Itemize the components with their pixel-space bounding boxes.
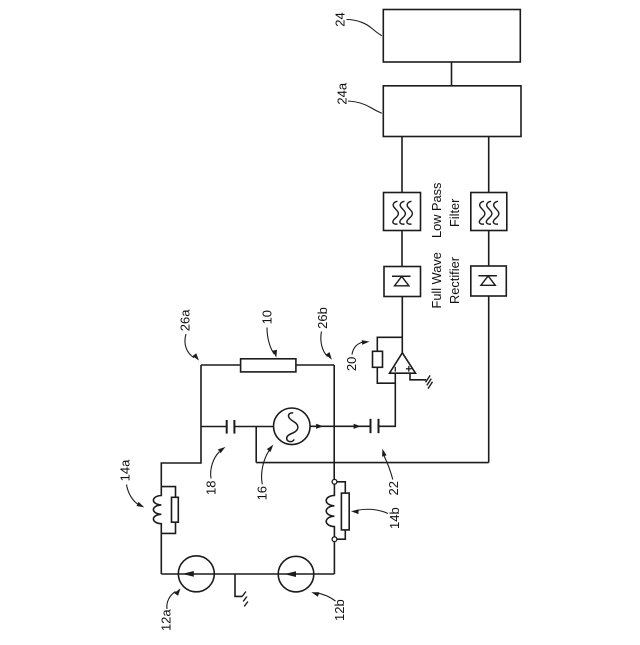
terminal node (top) of 14b: [332, 479, 337, 484]
inductor 14b resistor branch top: [337, 482, 345, 493]
diode symbol 2: [478, 275, 497, 277]
svg-text:18: 18: [203, 481, 218, 495]
leader for 20: [352, 342, 364, 355]
wire rectifier1 to op-amp output: [401, 297, 403, 353]
full wave rectifier box 1: [384, 267, 421, 297]
low pass filter box 2: [471, 193, 507, 231]
op-amp minus marker: [394, 367, 396, 372]
filter squiggles 1: [393, 201, 399, 224]
non-inverting input to ground: [410, 373, 426, 380]
svg-text:12a: 12a: [158, 609, 173, 631]
capacitor 18 plates: [226, 420, 228, 434]
box 24 (output block): [383, 10, 520, 63]
long bottom feed wire to rectifier chain 2: [256, 462, 489, 464]
leader for 12a: [167, 592, 176, 610]
inductor 14a combo top bar: [161, 487, 175, 498]
wire rectifier2 down to bottom feed wire: [488, 296, 490, 463]
leader for 24: [347, 20, 382, 36]
tee down from oscillator input node: [255, 427, 257, 463]
wire box24a to low pass filter 1: [401, 137, 403, 193]
svg-text:12b: 12b: [332, 599, 347, 621]
full wave rectifier box 2: [471, 266, 507, 296]
ground stub (bottom): [235, 574, 242, 596]
leader for 24a: [348, 101, 382, 113]
bottom rail: [161, 573, 334, 575]
leader for 26a: [185, 334, 194, 358]
svg-text:14a: 14a: [117, 459, 132, 481]
wire left rail to capacitor 18: [201, 426, 227, 428]
svg-text:Full Wave: Full Wave: [429, 252, 444, 308]
svg-text:22: 22: [386, 481, 401, 495]
wire LPF1 to rectifier 1: [401, 231, 403, 267]
inductor 14a coil: [153, 487, 161, 534]
arrow of 12b: [284, 571, 296, 577]
wire 14b to bottom rail: [333, 542, 335, 574]
op-amp plus marker: [406, 368, 412, 370]
svg-text:Rectifier: Rectifier: [447, 256, 462, 304]
oscillator sine symbol: [287, 413, 298, 442]
feedback resistor R (op-amp): [377, 337, 402, 351]
filter squiggles 2: [479, 201, 485, 224]
left rail of loop: [161, 365, 201, 487]
wire box24a to low pass filter 2: [488, 137, 490, 193]
wire oscillator to capacitor 22 with flow arrows: [310, 425, 370, 427]
inductor 14b resistor branch bottom: [337, 530, 345, 539]
wire between box 24 and 24a: [451, 62, 453, 86]
ground (bottom): [242, 592, 246, 597]
wire LPF2 to rectifier 2: [488, 231, 490, 267]
svg-text:20: 20: [344, 357, 359, 371]
svg-text:24: 24: [332, 12, 347, 26]
damping resistor of 14b: [341, 493, 349, 530]
oscillator 16 circle: [274, 408, 311, 445]
leader for 26b: [321, 332, 328, 357]
leader for 12b: [317, 593, 336, 601]
terminal node (bottom) of 14b: [332, 537, 337, 542]
capacitor 22 plates: [370, 419, 372, 433]
diode symbol 1: [392, 275, 411, 277]
inverting input wire down to capacitor 22: [379, 373, 396, 426]
box 24a (interface block): [383, 86, 521, 137]
svg-text:26a: 26a: [178, 309, 193, 331]
leader for 14b: [357, 509, 389, 513]
svg-text:24a: 24a: [334, 82, 349, 104]
svg-text:Low Pass: Low Pass: [429, 183, 444, 238]
inductor 14b coil: [326, 484, 334, 537]
current source 12a: [178, 556, 214, 592]
current source 12b: [278, 556, 314, 592]
svg-text:14b: 14b: [387, 507, 402, 529]
leader for 10: [267, 328, 274, 355]
low pass filter box 1: [384, 193, 421, 231]
op-amp U (20): [390, 353, 416, 373]
leader for 18: [211, 452, 220, 479]
top rail of loop: [201, 364, 241, 366]
svg-text:26b: 26b: [315, 307, 330, 329]
svg-text:Filter: Filter: [447, 198, 462, 227]
leader for 16: [262, 449, 270, 484]
wire capacitor 18 to oscillator: [234, 426, 273, 428]
arrow of 12a: [182, 571, 194, 577]
wire 14a to bottom rail: [160, 533, 162, 574]
svg-text:16: 16: [255, 486, 270, 500]
resistor 10: [241, 359, 296, 372]
right rail of loop: [333, 365, 335, 479]
svg-text:10: 10: [260, 310, 275, 324]
leader for 22: [384, 455, 393, 479]
inductor 14a combo bottom bar: [161, 522, 175, 533]
damping resistor of 14a: [172, 497, 179, 522]
ground (op-amp): [426, 375, 431, 382]
leader for 14a: [127, 485, 140, 506]
